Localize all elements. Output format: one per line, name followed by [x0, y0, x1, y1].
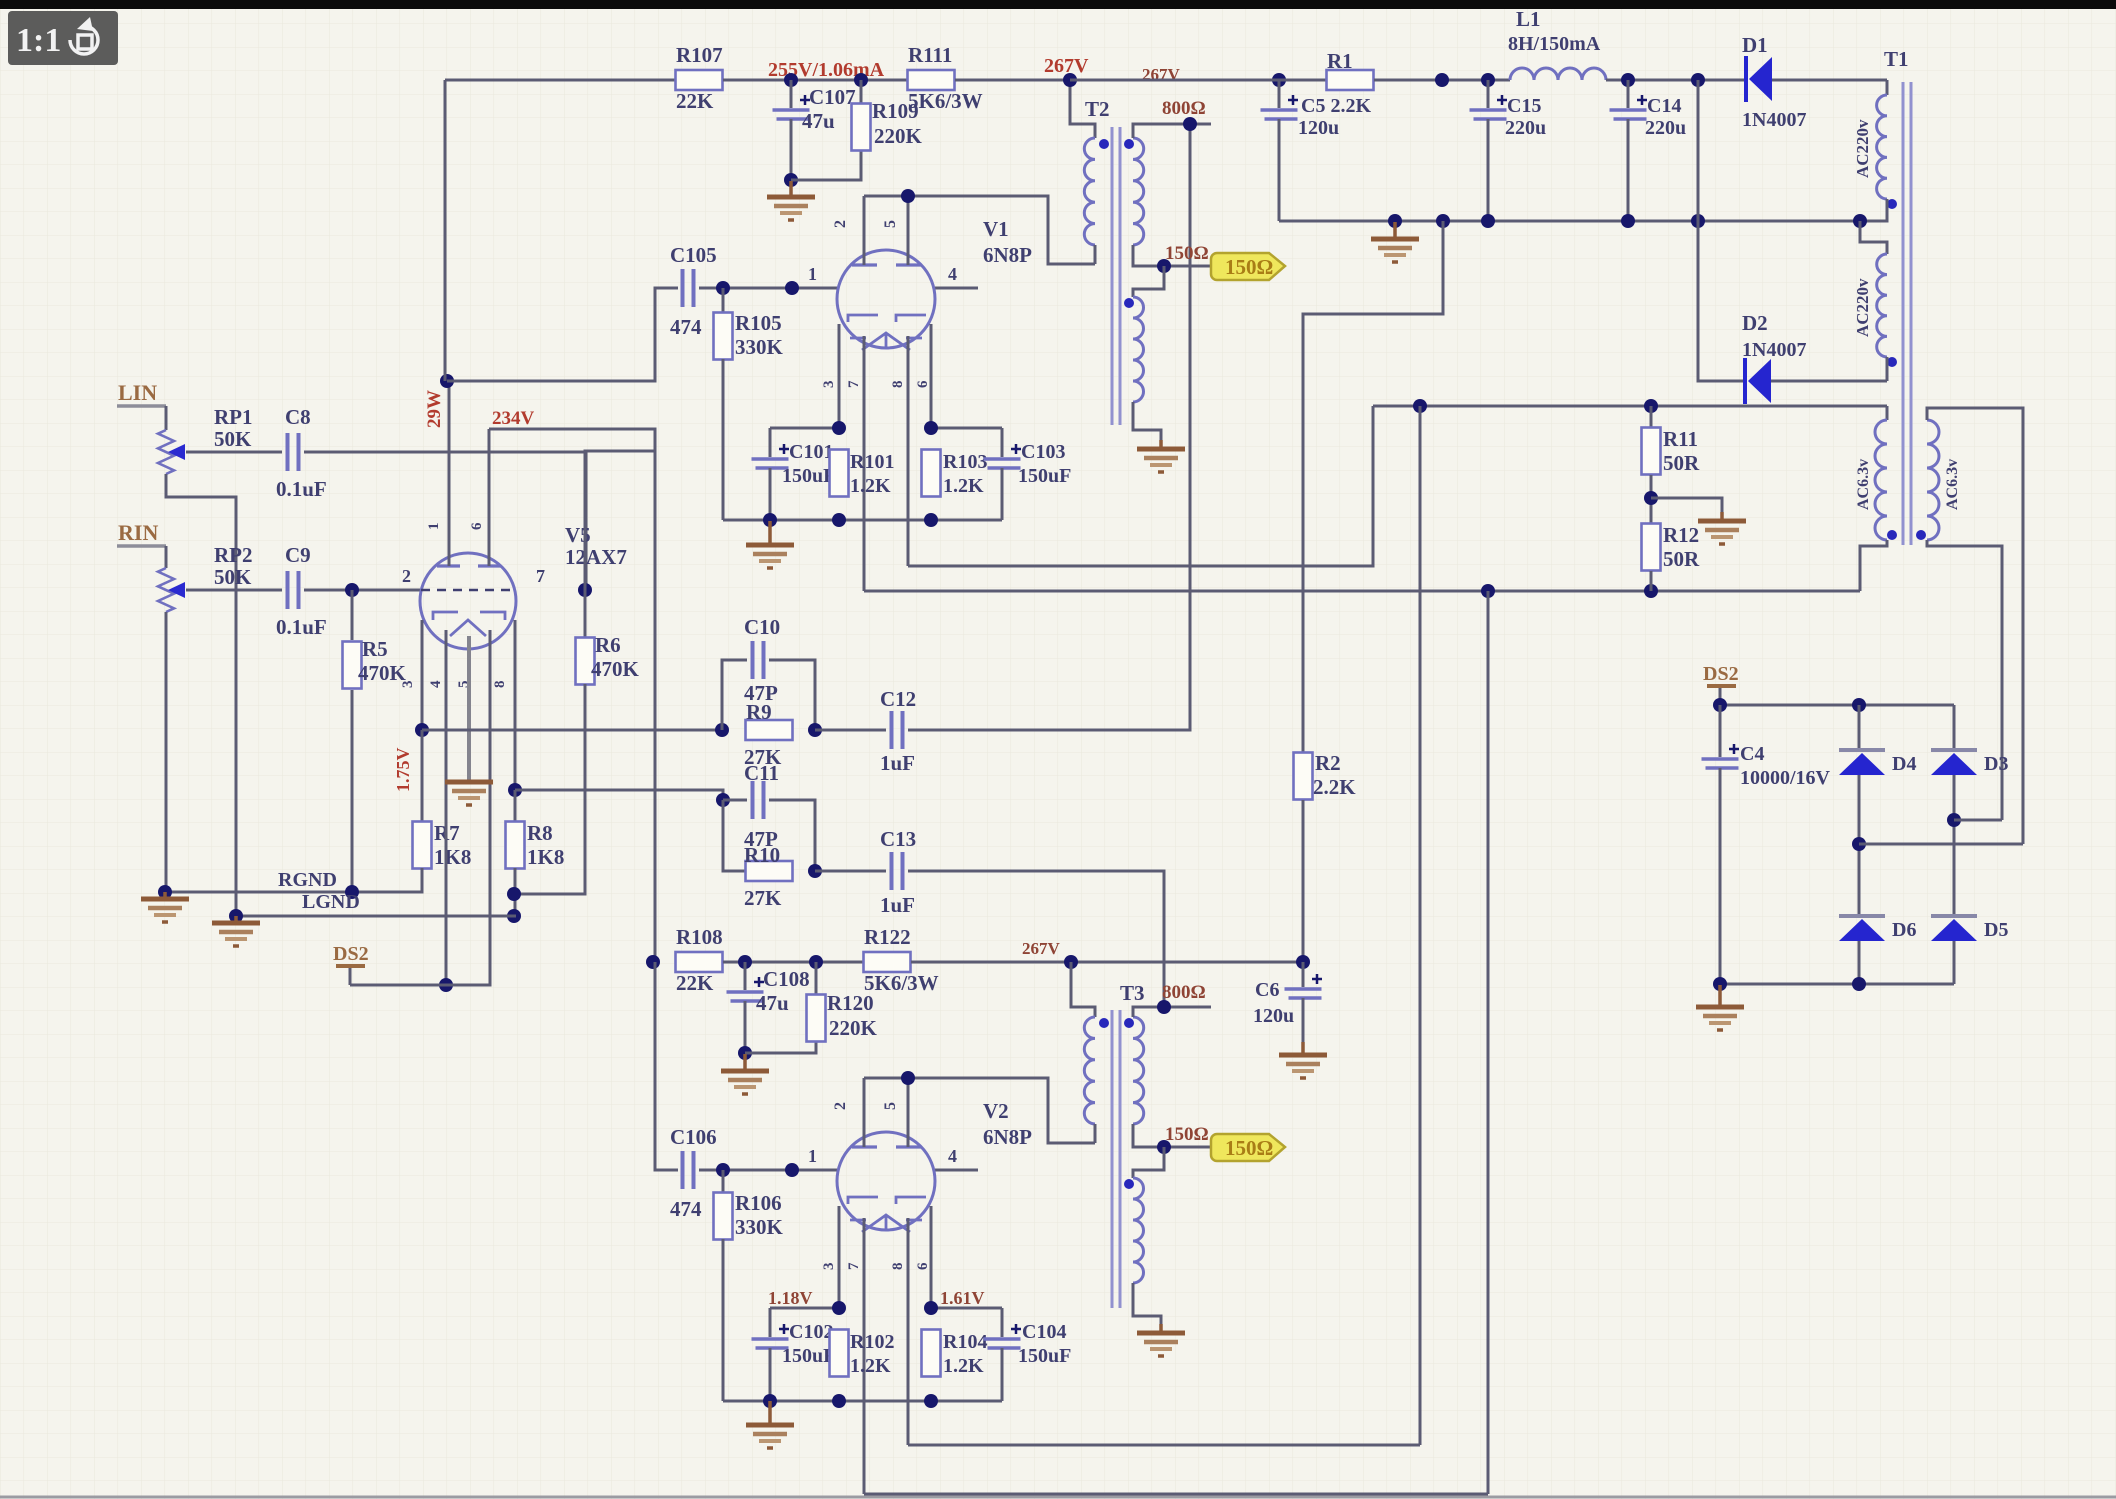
- resistor R2: [1294, 753, 1313, 800]
- svg-text:22K: 22K: [676, 89, 714, 113]
- wire cathode feedback run: [422, 729, 722, 732]
- junction C107 top: [784, 73, 798, 87]
- svg-text:R2: R2: [1315, 751, 1341, 775]
- svg-text:C12: C12: [880, 687, 916, 711]
- svg-text:R109: R109: [872, 99, 919, 123]
- junction V5 pin7 R6: [578, 583, 592, 597]
- svg-text:R120: R120: [827, 991, 874, 1015]
- svg-text:1K8: 1K8: [434, 845, 471, 869]
- capacitor C108: [727, 990, 764, 994]
- svg-text:RP1: RP1: [214, 405, 253, 429]
- svg-text:R6: R6: [595, 633, 621, 657]
- wire R106 bottom lead: [722, 1239, 725, 1401]
- svg-text:C11: C11: [744, 761, 779, 785]
- svg-text:D2: D2: [1742, 311, 1768, 335]
- wire C4 top lead: [1719, 705, 1722, 757]
- polarity dot T2 secondary lower: [1124, 298, 1134, 308]
- wire C104 top lead: [1001, 1308, 1004, 1337]
- svg-text:1.2K: 1.2K: [850, 475, 891, 497]
- junction C11 left: [716, 793, 730, 807]
- svg-text:R103: R103: [943, 451, 987, 473]
- svg-text:L1: L1: [1516, 7, 1541, 31]
- wire V5 heater pin right: [446, 630, 490, 985]
- svg-text:7: 7: [536, 566, 545, 586]
- junction return ground: [1388, 214, 1402, 228]
- svg-text:5K6/3W: 5K6/3W: [864, 971, 939, 995]
- polarity dot T3 secondary upper: [1124, 1018, 1134, 1028]
- wire grid tie from 234V column: [585, 451, 655, 590]
- junction R5 on RGND: [345, 885, 359, 899]
- wire T1 center tap: [1860, 199, 1887, 221]
- wire rail to T3 primary top: [1071, 962, 1095, 1017]
- wire R7 bottom to RGND: [165, 868, 422, 892]
- svg-text:R107: R107: [676, 43, 723, 67]
- wire T1 heater winding top lead: [1886, 406, 1889, 420]
- resistor R12: [1642, 524, 1661, 571]
- svg-text:1: 1: [808, 264, 817, 284]
- ground symbol below C108: [743, 1054, 747, 1071]
- svg-text:C101: C101: [789, 441, 833, 463]
- svg-text:150uF: 150uF: [782, 1345, 835, 1367]
- wire T1 right winding top to bridge: [1927, 408, 2023, 844]
- wire C6 bottom lead: [1302, 998, 1305, 1042]
- wire C6 top lead: [1302, 962, 1305, 987]
- junction R104 top: [924, 1301, 938, 1315]
- ground symbol below C107: [789, 181, 793, 197]
- svg-text:D4: D4: [1892, 753, 1916, 775]
- svg-text:47u: 47u: [756, 991, 789, 1015]
- wire T1 tap to winding2: [1860, 221, 1887, 254]
- capacitor C14: [1610, 108, 1647, 112]
- wire C8 to V5 grid pin7: [304, 452, 586, 590]
- svg-text:C9: C9: [285, 543, 311, 567]
- transformer T1 winding AC220v upper: [1877, 95, 1887, 199]
- wire T2 primary bottom: [1094, 245, 1097, 264]
- junction C102 bottom: [763, 1394, 777, 1408]
- polarity dot T3 secondary lower: [1124, 1179, 1134, 1189]
- junction R101 top: [832, 421, 846, 435]
- tube V1 cathode marks: [850, 333, 922, 350]
- wire V1 right plate lead: [907, 196, 910, 265]
- resistor R7: [413, 822, 432, 869]
- ground symbol below C6: [1301, 1042, 1305, 1055]
- wire R103 block top: [931, 427, 1002, 430]
- resistor R107: [676, 70, 723, 90]
- svg-text:150Ω: 150Ω: [1225, 1136, 1273, 1160]
- tube V2 plate bars: [852, 1145, 921, 1148]
- port LIN pin underline: [117, 404, 166, 408]
- svg-text:R105: R105: [735, 311, 782, 335]
- polarity dot T1 AC220 lower: [1887, 357, 1897, 367]
- transformer T2 primary winding: [1084, 138, 1095, 245]
- svg-text:C14: C14: [1647, 95, 1681, 117]
- svg-text:6N8P: 6N8P: [983, 243, 1032, 267]
- svg-text:R9: R9: [746, 700, 772, 724]
- junction D2 column on return: [1691, 214, 1705, 228]
- capacitor C5: [1261, 108, 1298, 112]
- svg-text:C107: C107: [809, 85, 856, 109]
- capacitor C4: [1702, 757, 1739, 761]
- diode D2: [1743, 358, 1747, 404]
- capacitor C13: [890, 852, 894, 890]
- svg-text:C13: C13: [880, 827, 916, 851]
- capacitor C107: [773, 108, 810, 112]
- port RIN pin underline: [117, 544, 166, 548]
- capacitor C105: [681, 269, 685, 307]
- svg-text:4: 4: [428, 680, 444, 688]
- wire D3 to D5: [1953, 775, 1956, 916]
- wire C101 bottom lead: [769, 468, 772, 520]
- wire T2 secondary top lead: [1133, 124, 1211, 138]
- svg-text:7: 7: [846, 1262, 862, 1270]
- svg-text:150Ω: 150Ω: [1165, 1124, 1209, 1145]
- wire T3 primary bottom: [1094, 1124, 1097, 1143]
- wire DS2 right stem: [1719, 688, 1722, 705]
- wire C9 to V5 grid pin2: [304, 589, 420, 592]
- junction C5 top: [1272, 73, 1286, 87]
- svg-text:0.1uF: 0.1uF: [276, 615, 327, 639]
- junction R102 bottom: [832, 1394, 846, 1408]
- wire C102 top lead: [769, 1308, 772, 1337]
- svg-text:1K8: 1K8: [527, 845, 564, 869]
- ground symbol B+ return: [1393, 222, 1397, 239]
- wire V2 bias block bottom rail: [723, 1400, 1002, 1403]
- svg-text:AC6.3v: AC6.3v: [1944, 459, 1961, 510]
- wire V5 left plate to C105: [447, 288, 678, 381]
- svg-text:4: 4: [948, 1146, 957, 1166]
- svg-text:R101: R101: [850, 451, 894, 473]
- wire C104 bottom lead: [1001, 1348, 1004, 1401]
- svg-text:4: 4: [948, 264, 957, 284]
- resistor R9: [746, 720, 793, 740]
- svg-text:C104: C104: [1022, 1321, 1066, 1343]
- wire C102 bottom lead: [769, 1348, 772, 1401]
- junction C108 top: [738, 955, 752, 969]
- svg-text:T3: T3: [1120, 981, 1145, 1005]
- wire C10 loop right: [769, 660, 815, 730]
- wire C14 top lead: [1627, 80, 1630, 108]
- junction T2 primary at rail: [1063, 73, 1077, 87]
- wire rail to T2 primary top: [1070, 80, 1095, 138]
- junction C14 bottom: [1621, 214, 1635, 228]
- wire RIN to RP2 top: [165, 546, 168, 568]
- transformer T3 core: [1112, 1010, 1120, 1308]
- wire D4 to D6: [1858, 775, 1861, 916]
- wire rail R111 to T2: [955, 79, 1070, 82]
- svg-text:R111: R111: [908, 43, 952, 67]
- capacitor C10: [751, 641, 755, 679]
- junction R2 branch: [1436, 214, 1450, 228]
- wire heater drop to V2 grid side: [1419, 406, 1422, 1445]
- wire C103 top lead: [1001, 428, 1004, 457]
- tube V2 grid bars: [848, 1197, 926, 1204]
- svg-text:C106: C106: [670, 1125, 717, 1149]
- junction R11 top: [1644, 399, 1658, 413]
- junction V5 cathode feedback node: [415, 723, 429, 737]
- wire C13 to T3 800 tap: [908, 871, 1164, 1007]
- wire V2 heater pin to mid run: [907, 1218, 910, 1445]
- wire heater drop to V2 cathode side: [1487, 591, 1490, 1494]
- wire R5 bottom lead: [351, 690, 354, 892]
- wire R105 bottom lead: [722, 359, 725, 520]
- polarity dot T2 primary: [1099, 139, 1109, 149]
- svg-text:0.1uF: 0.1uF: [276, 477, 327, 501]
- top black bar: [0, 0, 2116, 9]
- wire heater top to V1: [908, 406, 1373, 566]
- svg-text:3: 3: [400, 681, 416, 689]
- junction T3 800 ohm tap: [1157, 1000, 1171, 1014]
- wire V2 pin4 stub: [935, 1169, 978, 1172]
- svg-text:R8: R8: [527, 821, 553, 845]
- wire T3 150 tap lead: [1133, 1124, 1211, 1147]
- resistor R101: [830, 450, 849, 497]
- wire V5 left plate lead up: [448, 381, 451, 566]
- svg-text:267V: 267V: [1044, 55, 1089, 77]
- ground symbol bridge minus: [1718, 985, 1722, 1007]
- svg-text:C10: C10: [744, 615, 780, 639]
- wire rail R107 to R111: [723, 79, 908, 82]
- resistor R122: [864, 952, 911, 972]
- wire D3 column top: [1953, 705, 1956, 750]
- junction C4 bottom: [1713, 977, 1727, 991]
- junction R9 left: [715, 723, 729, 737]
- wire V5 plate node up to 255V rail: [444, 80, 447, 381]
- svg-text:D3: D3: [1984, 753, 2008, 775]
- resistor R5: [343, 642, 362, 689]
- wire R106 top lead: [722, 1170, 725, 1194]
- net label flag 150 ohm T3: [1211, 1134, 1285, 1161]
- svg-text:5: 5: [882, 1102, 899, 1110]
- junction C14 top: [1621, 73, 1635, 87]
- capacitor C106: [681, 1151, 685, 1189]
- bottom edge line: [0, 1496, 2116, 1499]
- svg-text:1.18V: 1.18V: [768, 1288, 813, 1308]
- resistor R104: [922, 1330, 941, 1377]
- svg-text:C15: C15: [1507, 95, 1541, 117]
- transformer T1 winding AC220v lower: [1877, 254, 1887, 357]
- svg-text:LIN: LIN: [118, 380, 157, 405]
- tube V2 envelope: [837, 1132, 935, 1230]
- svg-text:RP2: RP2: [214, 543, 253, 567]
- wire heater top rail: [1373, 405, 1887, 408]
- wire R5 top lead: [351, 590, 354, 640]
- junction DS2 heater node: [439, 978, 453, 992]
- svg-text:DS2: DS2: [1703, 663, 1739, 685]
- svg-text:R1: R1: [1327, 49, 1353, 73]
- wire C101 block top: [770, 427, 839, 430]
- svg-text:120u: 120u: [1253, 1005, 1294, 1027]
- wire 234V plate to R108 column: [489, 429, 655, 962]
- junction R11 R12 midpoint: [1644, 491, 1658, 505]
- junction C15 top: [1481, 73, 1495, 87]
- wire R2 bottom lead: [1302, 800, 1305, 962]
- resistor R120: [807, 995, 826, 1042]
- svg-text:1uF: 1uF: [880, 751, 915, 775]
- svg-text:474: 474: [670, 1197, 702, 1221]
- junction D6 bottom: [1852, 977, 1866, 991]
- wire C11 right: [769, 800, 815, 871]
- wire V1 heater pin to 6.3v bottom: [863, 336, 866, 591]
- diode D3: [1931, 748, 1977, 752]
- wire C5 bottom lead: [1278, 119, 1281, 221]
- svg-text:150Ω: 150Ω: [1165, 243, 1209, 264]
- svg-text:T2: T2: [1085, 97, 1110, 121]
- power flag DS2 left underline: [336, 964, 365, 968]
- junction LGND ground node: [229, 909, 243, 923]
- capacitor C104: [984, 1337, 1021, 1341]
- wire R105 top lead: [722, 288, 725, 314]
- wire D5 bottom: [1953, 941, 1956, 984]
- svg-text:8: 8: [890, 1263, 906, 1271]
- potentiometer RP1 wiper arrow: [168, 444, 185, 460]
- wire R8 bottom lead: [514, 868, 517, 916]
- junction R2 C6 node: [1296, 955, 1310, 969]
- diode D1: [1744, 56, 1748, 102]
- svg-text:R5: R5: [362, 637, 388, 661]
- svg-text:800Ω: 800Ω: [1162, 982, 1206, 1003]
- svg-text:470K: 470K: [591, 657, 640, 681]
- resistor R103: [922, 450, 941, 497]
- svg-text:R102: R102: [850, 1331, 894, 1353]
- transformer T2 core: [1112, 127, 1120, 425]
- junction branch to R2: [1435, 73, 1449, 87]
- junction V1 plate node: [901, 189, 915, 203]
- svg-text:C6: C6: [1255, 979, 1279, 1001]
- wire C10 loop: [722, 660, 747, 730]
- junction R109 top: [854, 73, 868, 87]
- potentiometer RP2 wiper arrow: [168, 582, 185, 598]
- tube V5 envelope: [420, 553, 516, 649]
- wire rail R1 to L1: [1374, 79, 1510, 82]
- wire R10 left leg: [723, 800, 746, 871]
- junction RGND ground node: [158, 885, 172, 899]
- wire C15 bottom lead: [1487, 119, 1490, 221]
- wire C102 block top: [770, 1307, 839, 1310]
- resistor R106: [714, 1193, 733, 1240]
- svg-text:1.2K: 1.2K: [850, 1355, 891, 1377]
- wire 234V column to C106: [655, 962, 678, 1170]
- wire R9 to C12: [815, 729, 886, 732]
- svg-text:V5: V5: [565, 523, 591, 547]
- wire V2 pin6 lead down: [930, 1206, 933, 1308]
- transformer T2 secondary upper winding: [1133, 138, 1144, 245]
- svg-text:R104: R104: [943, 1331, 987, 1353]
- svg-text:RGND: RGND: [278, 869, 337, 891]
- resistor R8: [506, 822, 525, 869]
- wire C108 top lead: [744, 962, 747, 990]
- junction R105 top: [716, 281, 730, 295]
- wire V5 left cathode lead: [421, 620, 424, 730]
- wire C14 bottom lead: [1627, 119, 1630, 221]
- transformer T3 secondary lower winding: [1133, 1178, 1144, 1283]
- wire C107 to R109 bottom: [791, 151, 861, 180]
- junction bridge plus C4: [1713, 698, 1727, 712]
- junction C11 takeoff at R8: [508, 783, 522, 797]
- svg-text:D5: D5: [1984, 919, 2008, 941]
- wire R2 branch jog: [1303, 221, 1443, 752]
- junction T1 center tap: [1853, 214, 1867, 228]
- svg-text:800Ω: 800Ω: [1162, 98, 1206, 119]
- wire RP2 wiper to C9: [186, 589, 282, 592]
- svg-text:12AX7: 12AX7: [565, 545, 627, 569]
- wire C5 top lead: [1278, 80, 1281, 108]
- junction V2 pin1 node: [785, 1163, 799, 1177]
- svg-text:6: 6: [915, 380, 931, 388]
- diode D6: [1839, 914, 1885, 918]
- wire C12 to T2 800 tap: [908, 124, 1190, 730]
- svg-text:1.2K: 1.2K: [943, 1355, 984, 1377]
- resistor R6: [576, 638, 595, 685]
- svg-text:220K: 220K: [874, 124, 923, 148]
- tube V1 plate bars: [852, 263, 921, 266]
- wire C105 to V1 grid: [699, 287, 837, 290]
- svg-text:267V: 267V: [1022, 939, 1061, 958]
- wire rail R108 to R122: [723, 961, 864, 964]
- svg-text:C102: C102: [789, 1321, 833, 1343]
- junction C108 ground node: [738, 1046, 752, 1060]
- wire bridge top rail: [1720, 704, 1954, 707]
- svg-text:27K: 27K: [744, 886, 782, 910]
- svg-text:50R: 50R: [1663, 451, 1700, 475]
- zoom badge background: [8, 11, 118, 65]
- junction T2 800 ohm tap: [1183, 117, 1197, 131]
- svg-text:150uF: 150uF: [782, 465, 835, 487]
- svg-text:AC220v: AC220v: [1853, 278, 1872, 337]
- ground symbol below T2: [1159, 440, 1163, 449]
- resistor R105: [714, 313, 733, 360]
- svg-text:120u: 120u: [1298, 117, 1339, 139]
- wire R8 top lead: [514, 790, 517, 822]
- junction V5 left plate node: [440, 374, 454, 388]
- capacitor C8: [286, 433, 290, 471]
- wire midpoint to ground: [1651, 498, 1722, 512]
- wire RP1 wiper to C8: [186, 451, 282, 454]
- wire D2 anode to T1 tap: [1771, 380, 1887, 383]
- wire right cathode feedback: [515, 790, 723, 800]
- junction C107 ground node: [784, 173, 798, 187]
- wire T1 AC220 winding1 top lead: [1886, 80, 1889, 95]
- wire D6 bottom: [1858, 941, 1861, 984]
- svg-text:8: 8: [492, 681, 508, 689]
- wire V2 plates to T3 primary: [864, 1078, 1095, 1143]
- wire LIN to RP1 top: [165, 406, 168, 430]
- svg-text:DS2: DS2: [333, 943, 369, 965]
- wire D2 column: [1698, 80, 1745, 381]
- wire T3 tap jog to lower winding: [1133, 1147, 1164, 1178]
- resistor R109: [852, 104, 871, 151]
- svg-text:6N8P: 6N8P: [983, 1125, 1032, 1149]
- svg-text:C5 2.2K: C5 2.2K: [1301, 95, 1371, 117]
- wire V1 heater pin to 6.3v top: [907, 336, 910, 566]
- svg-text:AC220v: AC220v: [1853, 119, 1872, 178]
- wire R12 bottom lead: [1650, 571, 1653, 591]
- svg-text:47u: 47u: [802, 109, 835, 133]
- svg-text:1.2K: 1.2K: [943, 475, 984, 497]
- svg-text:150uF: 150uF: [1018, 465, 1071, 487]
- wire V2 heater mid run: [908, 1444, 1420, 1447]
- wire V5 heater pin to DS2 node: [445, 630, 448, 985]
- wire bridge AC right feed: [1954, 819, 2002, 822]
- ground symbol LGND: [234, 916, 238, 923]
- polarity dot T2 secondary upper: [1124, 139, 1134, 149]
- junction V2 plate node: [901, 1071, 915, 1085]
- wire V2 pin3 lead down: [838, 1206, 841, 1308]
- wire C108 bottom lead: [744, 1001, 747, 1053]
- wire D4 column top: [1858, 705, 1861, 750]
- svg-text:6: 6: [469, 522, 485, 530]
- junction R104 bottom: [924, 1394, 938, 1408]
- junction R12 bottom: [1644, 584, 1658, 598]
